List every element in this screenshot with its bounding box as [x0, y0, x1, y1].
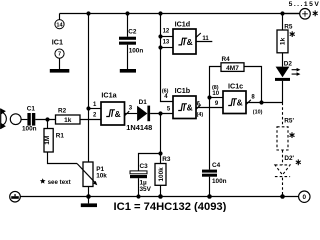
svg-text:&: & [187, 103, 193, 113]
svg-text:&: & [115, 109, 121, 119]
svg-text:1M: 1M [44, 135, 51, 145]
wire D1 cathode to IC1b pin5 [150, 113, 173, 115]
svg-text:1k: 1k [280, 37, 287, 45]
LED D2' dashed [275, 165, 290, 177]
svg-text:R5': R5' [284, 118, 294, 125]
wire D2 to out node [282, 81, 284, 103]
asterisk supply [313, 10, 318, 16]
svg-text:100k: 100k [158, 167, 165, 182]
IC1c output tick [246, 100, 251, 105]
op-amp gate IC1b [173, 96, 196, 119]
resistor R5' dashed [277, 127, 288, 150]
wire R2 to IC1a pin2 [80, 119, 101, 121]
node dot R3/C3 [158, 151, 162, 155]
svg-text:IC1: IC1 [52, 37, 63, 46]
svg-text:100n: 100n [22, 126, 37, 133]
wire R4 left leg [210, 67, 222, 98]
resistor R3 [155, 164, 166, 186]
svg-text:C2: C2 [128, 28, 137, 35]
node junction on rail at x=282.6 [280, 11, 284, 15]
svg-text:IC1a: IC1a [101, 91, 117, 100]
wire C2 to ground [127, 45, 129, 69]
wire supply to + terminal [283, 13, 300, 15]
wire R1 to P1 wiper [48, 152, 78, 164]
svg-text:12: 12 [163, 29, 170, 35]
svg-text:C4: C4 [212, 162, 221, 169]
svg-text:4M7: 4M7 [226, 65, 239, 72]
node junction on rail at x=88 [86, 11, 90, 15]
resistor R4 [221, 63, 244, 72]
node dot C1/R2/R1 [45, 117, 49, 121]
resistor R2 [56, 115, 81, 124]
pin 14 circle of IC1 [55, 20, 64, 29]
svg-text:R5: R5 [284, 23, 293, 30]
IC1d output tick [196, 33, 201, 37]
IC1a output tick [125, 111, 130, 116]
wire C3 to rail [138, 178, 140, 196]
terminal 0 right [299, 191, 310, 202]
svg-text:100n: 100n [212, 178, 227, 185]
IC1b output tick [196, 105, 201, 110]
wire P1 to rail [88, 187, 90, 197]
wire R1 drop [47, 120, 49, 129]
svg-text:13: 13 [163, 40, 170, 46]
svg-text:(10): (10) [253, 110, 263, 116]
svg-text:10k: 10k [96, 172, 107, 179]
node dot C4/rail [207, 194, 212, 199]
svg-text:&: & [187, 37, 193, 47]
svg-text:R2: R2 [58, 108, 67, 115]
svg-text:D2: D2 [284, 61, 293, 68]
node dot pin13 [158, 45, 162, 49]
node dot LED column/rail [280, 194, 285, 199]
wire R5 to D2 [282, 53, 284, 67]
node dot R3/rail [158, 194, 163, 199]
svg-text:(4): (4) [197, 112, 204, 118]
op-amp gate IC1c [223, 91, 246, 114]
resistor R5 [277, 30, 288, 53]
wire C2 drop from rail [127, 14, 129, 37]
svg-text:5...15V: 5...15V [289, 1, 320, 8]
svg-text:C3: C3 [140, 163, 149, 170]
svg-text:IC1 = 74HC132 (4093): IC1 = 74HC132 (4093) [114, 201, 227, 212]
node dot R4/out [259, 100, 263, 104]
wire top supply rail [60, 13, 300, 15]
wire IC1b out to IC1c pin9 [196, 107, 223, 109]
svg-text:35V: 35V [140, 186, 152, 193]
wire R3 drop [160, 154, 162, 164]
wire pin 12 stub [161, 36, 174, 38]
wire pins 9+10 / C4 column [209, 98, 211, 170]
wire dashed R5' to D2' [282, 150, 284, 165]
ground under rail at P1 [88, 197, 90, 204]
svg-text:C1: C1 [27, 106, 36, 113]
node dot P1/rail [86, 194, 91, 199]
svg-text:R4: R4 [222, 56, 231, 63]
svg-text:0: 0 [303, 194, 307, 201]
wire IC1d output stub [196, 41, 212, 43]
potentiometer P1 [77, 162, 97, 187]
node junction on rail at x=127.5 [125, 11, 129, 15]
wire IC1a out to D1 [125, 113, 138, 115]
wire dashed to R5' [282, 103, 284, 127]
svg-text:R1: R1 [56, 133, 65, 140]
node dot IC1a pin1 [86, 106, 90, 110]
wire IC1 pin7 to ground [59, 58, 61, 69]
wire R5 drop from rail [282, 14, 284, 31]
asterisk see text [40, 178, 46, 183]
wire D1 node down to R3 node [160, 114, 162, 154]
asterisk D2' [296, 159, 301, 165]
svg-text:14: 14 [56, 22, 63, 28]
svg-text:1k: 1k [64, 117, 72, 124]
svg-text:11: 11 [202, 36, 209, 42]
wire R4 right leg [244, 67, 262, 103]
resistor R1 [44, 129, 53, 153]
svg-text:IC1d: IC1d [175, 19, 191, 28]
capacitor C2 [119, 37, 136, 45]
wire node to C3 [139, 154, 161, 171]
node junction on rail at x=160 [158, 11, 162, 15]
svg-text:see text: see text [48, 179, 71, 186]
wire IC1 pin14 drop [59, 14, 61, 20]
svg-text:1N4148: 1N4148 [126, 123, 152, 132]
op-amp gate IC1d [173, 29, 196, 54]
wire C4 to rail [209, 177, 211, 197]
terminal ground left [10, 191, 21, 202]
node dot pin10 [207, 95, 211, 99]
diode D1 [137, 106, 150, 122]
svg-text:D2': D2' [284, 155, 294, 162]
wire R3 to rail [160, 185, 162, 196]
asterisk R5 [290, 31, 295, 37]
wire +rail drop x=88 to P1 [88, 14, 90, 163]
wire bottom rail [20, 196, 298, 198]
svg-text:7: 7 [58, 52, 61, 58]
capacitor C3 electrolytic [130, 171, 147, 178]
capacitor C4 [202, 170, 217, 177]
ground bar under IC1 pin 7 [50, 69, 70, 73]
node dot pin12 [158, 34, 162, 38]
svg-text:R3: R3 [162, 156, 171, 163]
capacitor C1 [27, 113, 35, 126]
terminal + supply [300, 9, 311, 20]
wire dashed D2' to rail [282, 178, 284, 197]
pin 7 circle of IC1 [55, 49, 64, 58]
svg-text:IC1b: IC1b [175, 86, 191, 95]
svg-text:IC1c: IC1c [228, 81, 243, 90]
wire pin1 stub [89, 108, 102, 110]
svg-text:100n: 100n [129, 47, 144, 54]
wire IC1c out to LED column [246, 102, 283, 104]
node dot D1/pin5/R3 [158, 111, 162, 115]
microphone input symbol [0, 108, 21, 129]
wire vertical x=160 rail to IC1d/IC1b pin4 [161, 14, 174, 102]
wire C1 to node [35, 119, 55, 121]
op-amp gate IC1a [101, 102, 125, 125]
asterisk R5' [290, 132, 295, 138]
svg-text:10: 10 [212, 91, 219, 97]
wire pin10 stub [210, 97, 224, 99]
LED D2 [275, 67, 300, 81]
ground bar under C2 [120, 69, 136, 73]
svg-text:D1: D1 [139, 99, 148, 106]
wire pin 13 stub [161, 47, 174, 49]
wire mic to C1 [21, 119, 27, 121]
node dot C3/rail [136, 194, 140, 198]
svg-text:&: & [237, 98, 243, 108]
